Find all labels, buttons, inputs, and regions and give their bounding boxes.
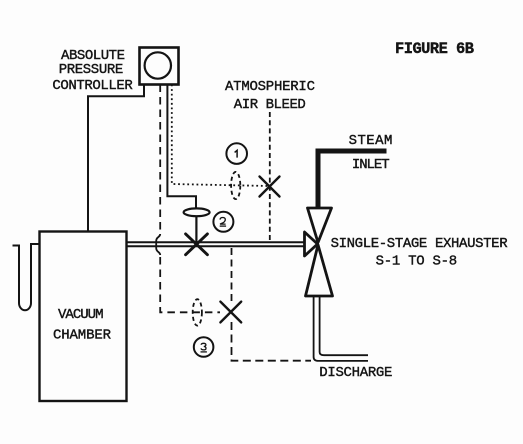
note circle 3 [194, 337, 214, 357]
svg-text:VACUUM: VACUUM [58, 307, 104, 323]
control line (dotted) controller to air bleed valve V1 [172, 85, 270, 187]
note circle 2 [213, 212, 233, 232]
digit 2 underlined [220, 218, 226, 225]
air bleed pipe (dashed vertical) [269, 112, 271, 242]
discharge pipe (double line with elbow) [314, 296, 368, 361]
label: vacuum chamber [53, 307, 112, 343]
label: atmospheric air bleed [225, 79, 315, 113]
steam inlet pipe (thick) [318, 151, 387, 208]
label: absolute pressure controller [52, 48, 133, 94]
svg-text:ATMOSPHERIC: ATMOSPHERIC [225, 79, 315, 95]
svg-text:CHAMBER: CHAMBER [53, 327, 112, 343]
main suction pipe (double line) [127, 242, 305, 246]
air bleed valve V1 (X) [260, 177, 280, 197]
exhauster suction nozzle triangle [305, 232, 318, 256]
digit 1 [235, 150, 238, 157]
svg-text:SINGLE-STAGE EXHAUSTER: SINGLE-STAGE EXHAUSTER [331, 236, 509, 252]
bypass line (dashed) from main pipe down to V3 [231, 248, 233, 302]
svg-text:DISCHARGE: DISCHARGE [319, 365, 392, 381]
sensing line from controller to vacuum chamber [88, 85, 144, 232]
svg-text:PRESSURE: PRESSURE [59, 62, 124, 78]
control line (solid) controller to V2 [167, 85, 196, 209]
note circle 1 [226, 143, 247, 164]
controller U1 box [140, 48, 179, 85]
svg-text:INLET: INLET [352, 157, 390, 173]
jog of dashed control line across main pipe [156, 234, 160, 255]
label: single-stage exhauster S-1 to S-8 [331, 236, 509, 270]
svg-text:AIR BLEED: AIR BLEED [234, 97, 306, 113]
V2 actuator ellipse [184, 208, 210, 216]
control line (dashed) controller to V3 [159, 85, 161, 232]
label: steam inlet [349, 133, 393, 173]
V1 actuator ellipse (dashed) [231, 172, 240, 199]
control valve V2 (X) on main pipe [186, 234, 208, 255]
svg-text:S-1 TO S-8: S-1 TO S-8 [376, 254, 458, 270]
controller dial circle [145, 52, 171, 78]
V2 stem lower [195, 216, 197, 244]
bypass line below V3 to discharge [232, 322, 312, 361]
V3 actuator ellipse (dashed) [193, 299, 202, 325]
exhauster upper nozzle triangle [308, 208, 332, 243]
bypass valve V3 (X) [220, 302, 241, 323]
U-tube drain seal on chamber [13, 244, 40, 310]
svg-text:CONTROLLER: CONTROLLER [52, 78, 133, 94]
vacuum chamber [40, 232, 127, 402]
svg-text:STEAM: STEAM [349, 133, 393, 149]
digit 3 underlined [201, 343, 206, 350]
svg-text:FIGURE 6B: FIGURE 6B [395, 40, 474, 58]
exhauster lower diffuser triangle [306, 245, 333, 296]
